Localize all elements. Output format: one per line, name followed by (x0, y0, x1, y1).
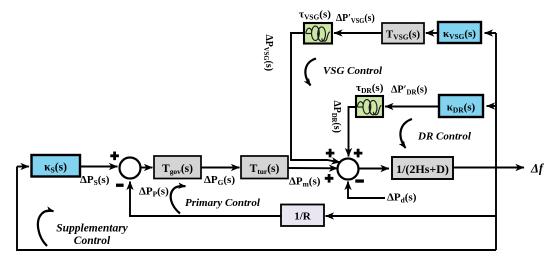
svg-text:1/(2Hs+D): 1/(2Hs+D) (396, 162, 449, 176)
svg-text:τVSG(s): τVSG(s) (299, 9, 331, 22)
block Tgov(s) (154, 156, 201, 179)
wire tau_DR down into junction 2 top (349, 107, 357, 157)
svg-text:Primary Control: Primary Control (185, 197, 261, 209)
wire T_VSG to delay block tau_VSG (334, 32, 382, 34)
svg-text:VSG Control: VSG Control (323, 65, 383, 77)
block K_S(s) (32, 155, 81, 177)
wire supplementary input arrow into K_S (17, 166, 29, 168)
svg-text:ΔPm(s): ΔPm(s) (289, 176, 321, 189)
minus sign at junction 1 (116, 184, 124, 187)
wire Tgov to Ttur (201, 167, 240, 169)
wire feedback into 1/R (326, 215, 497, 217)
delay block tau_VSG (304, 23, 332, 44)
wire right feedback vertical (495, 33, 497, 168)
svg-text:ΔPG(s): ΔPG(s) (204, 174, 235, 187)
curved arrow VSG control (305, 59, 316, 86)
wire 1/R to junction 1 bottom (130, 182, 281, 217)
wire K_S to summing junction 1 (80, 166, 118, 168)
svg-text:ΔPP(s): ΔPP(s) (139, 186, 169, 199)
plus sign top-right of junction 2 (354, 149, 363, 158)
svg-text:ΔP′VSG(s): ΔP′VSG(s) (336, 13, 375, 26)
block 1/R (281, 205, 324, 227)
curved arrow primary control (171, 186, 186, 213)
svg-text:DR Control: DR Control (417, 131, 472, 143)
wire bottom feedback (17, 167, 496, 251)
block T_VSG(s) (382, 23, 424, 44)
minus sign bottom-right of junction 2 (355, 179, 364, 182)
block Ttur(s) (241, 156, 288, 179)
block K_VSG(s) (438, 22, 481, 43)
wire into K_VSG (485, 32, 497, 34)
delay block tau_DR (356, 96, 383, 117)
svg-text:ΔPDR(s): ΔPDR(s) (330, 101, 342, 133)
plus sign at junction 1 (110, 152, 119, 161)
summing junction 1 (120, 158, 141, 179)
wire Ttur to summing junction 2 (288, 167, 338, 169)
label dP'dr(s) (391, 84, 428, 96)
wire K_DR to delay block tau_DR (385, 106, 439, 108)
svg-text:Supplementary: Supplementary (56, 223, 128, 235)
block K_DR(s) (439, 95, 483, 117)
svg-text:τDR(s): τDR(s) (356, 82, 384, 95)
svg-text:1/R: 1/R (294, 211, 312, 223)
curved arrow supplementary control (38, 211, 54, 246)
wire junction2 to swing block (359, 168, 390, 170)
curved arrow DR control (400, 119, 412, 148)
summing junction 2 (338, 159, 359, 180)
plus sign bottom-left of junction 2 (325, 174, 334, 183)
svg-text:ΔP′DR(s): ΔP′DR(s) (391, 84, 428, 96)
wire tau_VSG down to junction 2 upper-left (291, 33, 340, 162)
svg-text:ΔPS(s): ΔPS(s) (80, 174, 110, 187)
svg-text:ΔPVSG(s): ΔPVSG(s) (262, 35, 274, 72)
svg-text:Δf: Δf (530, 162, 545, 176)
svg-text:Control: Control (74, 235, 111, 247)
wire K_VSG to T_VSG (426, 32, 438, 34)
label dP'vsg(s) (336, 13, 375, 26)
svg-text:κS(s): κS(s) (44, 162, 67, 175)
plus sign top-left of junction 2 (326, 149, 335, 158)
wire into K_DR (487, 105, 497, 107)
wire output to delta f (453, 167, 524, 169)
wire load disturbance dPd into junction 2 bottom (348, 182, 385, 199)
block 1/(2Hs+D) (392, 157, 453, 179)
wire junction1 to Tgov (141, 167, 153, 169)
svg-text:ΔPd(s): ΔPd(s) (387, 192, 417, 205)
